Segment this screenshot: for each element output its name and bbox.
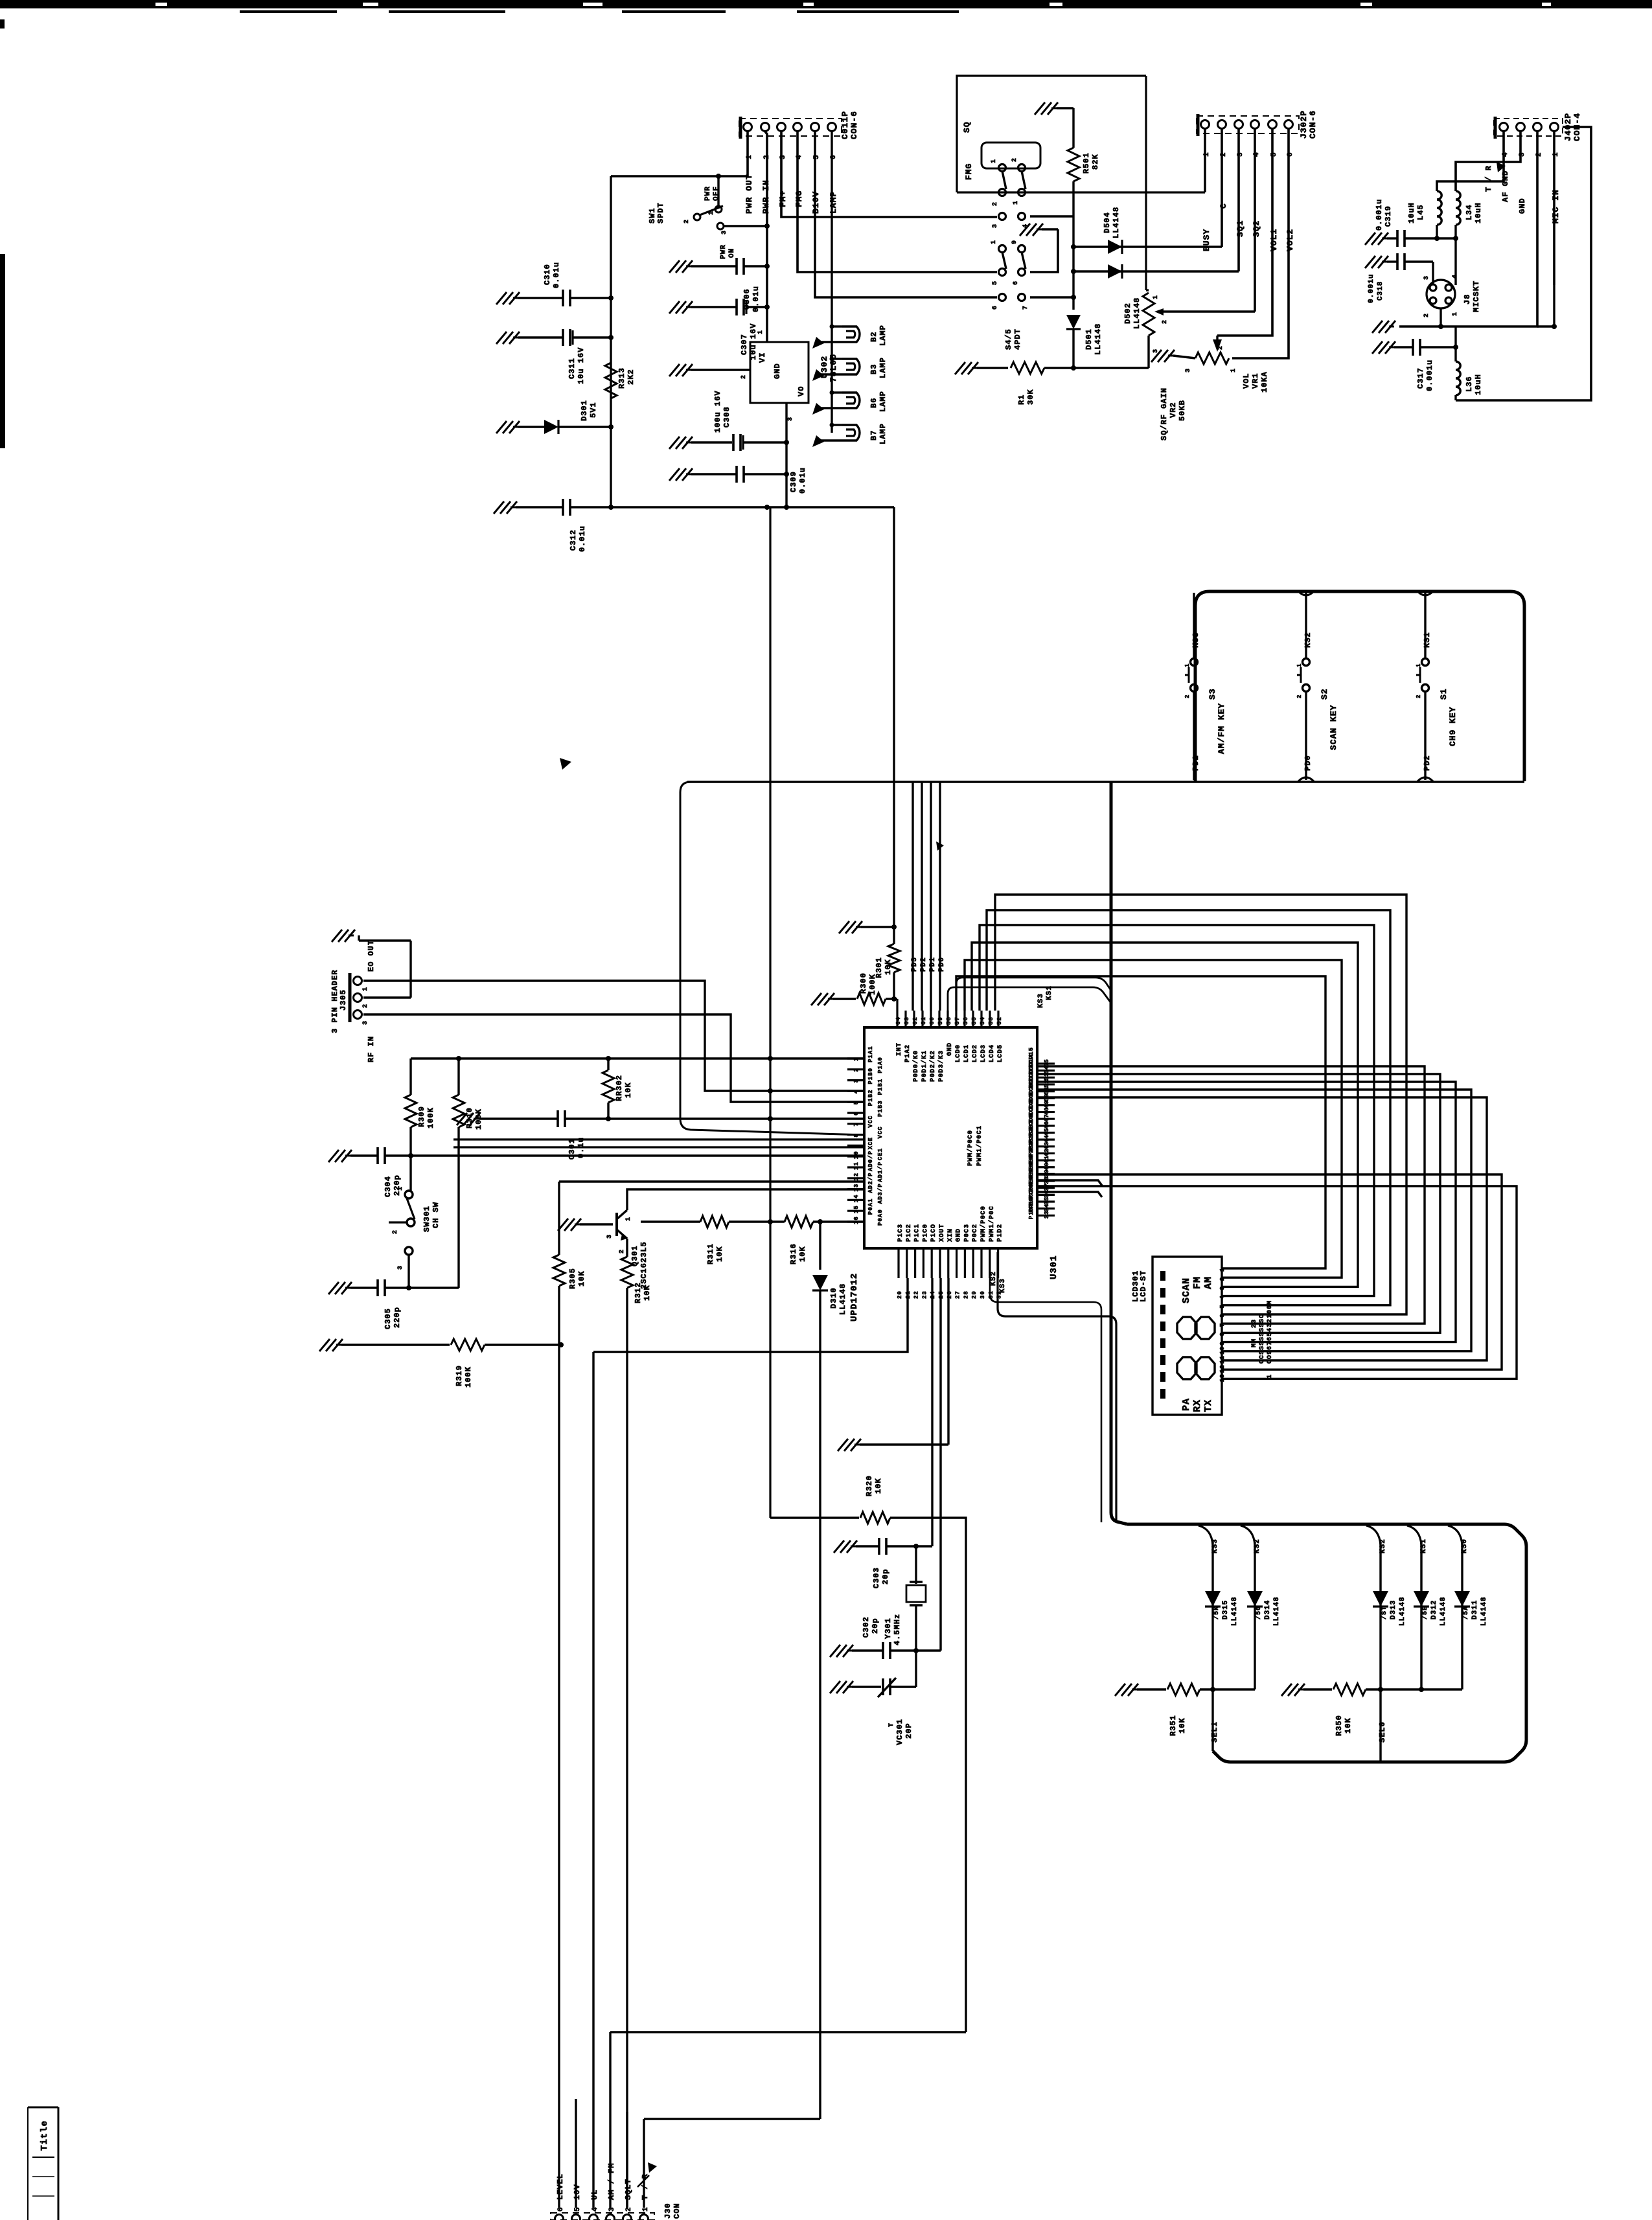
resistor R319 100K bbox=[319, 1339, 343, 1351]
bus wire LCD pin5 bbox=[987, 910, 1390, 1305]
diode D312 LL4148 KS1 bbox=[1407, 1526, 1421, 1545]
svg-text:/5G: /5G bbox=[1255, 1606, 1263, 1619]
bus wire LCD pin10 bbox=[1037, 1090, 1471, 1351]
wire UL bbox=[592, 1352, 594, 2208]
svg-text:R1: R1 bbox=[1017, 395, 1026, 405]
svg-text:C310: C310 bbox=[543, 264, 552, 285]
wire AM/FM bbox=[609, 2032, 611, 2208]
svg-text:C309: C309 bbox=[789, 471, 798, 492]
svg-text:2: 2 bbox=[1423, 313, 1430, 317]
svg-text:6: 6 bbox=[1219, 1314, 1226, 1318]
svg-text:60: 60 bbox=[929, 1016, 935, 1025]
svg-text:C305: C305 bbox=[384, 1308, 393, 1329]
svg-text:220p: 220p bbox=[393, 1174, 402, 1196]
capacitor C306 0.01u bbox=[669, 260, 693, 273]
svg-text:KS2: KS2 bbox=[1303, 632, 1313, 648]
potentiometer VR1 VOL 10KA bbox=[1151, 350, 1175, 362]
svg-text:10K: 10K bbox=[1178, 1717, 1187, 1734]
svg-text:TX: TX bbox=[1203, 1399, 1214, 1412]
svg-text:1: 1 bbox=[708, 211, 715, 215]
switch SW301 CH SW bbox=[409, 1156, 411, 1191]
svg-text:2: 2 bbox=[392, 1230, 399, 1234]
svg-text:0.01u: 0.01u bbox=[798, 467, 807, 494]
svg-text:11: 11 bbox=[853, 1161, 860, 1170]
wire PWR OUT left rail bbox=[610, 176, 612, 507]
svg-text:KS1: KS1 bbox=[1420, 1539, 1428, 1553]
svg-text:P0D0/K0: P0D0/K0 bbox=[912, 1050, 920, 1082]
svg-text:2: 2 bbox=[1162, 319, 1169, 324]
svg-text:0.01u: 0.01u bbox=[578, 525, 587, 552]
svg-text:22: 22 bbox=[913, 1290, 920, 1299]
svg-text:LL4148: LL4148 bbox=[1399, 1596, 1406, 1626]
diode box outline bbox=[1127, 1524, 1526, 1762]
S4 inner rounded box bbox=[981, 143, 1040, 168]
svg-text:3: 3 bbox=[397, 1265, 404, 1270]
wire SQ2 bbox=[1254, 129, 1256, 312]
svg-text:PWR: PWR bbox=[720, 244, 728, 259]
svg-text:KS3: KS3 bbox=[1211, 1539, 1219, 1553]
svg-text:VOL2: VOL2 bbox=[1285, 229, 1295, 251]
svg-text:PD1: PD1 bbox=[929, 957, 937, 972]
svg-text:MIC IN: MIC IN bbox=[1551, 189, 1561, 223]
svg-text:2: 2 bbox=[740, 374, 748, 379]
svg-text:J302P: J302P bbox=[1299, 110, 1309, 139]
capacitor C302 20p bbox=[830, 1645, 853, 1657]
resistor R501 82K bbox=[1035, 102, 1058, 115]
svg-text:VC301: VC301 bbox=[895, 1719, 904, 1745]
svg-text:/5K: /5K bbox=[1213, 1606, 1221, 1619]
svg-text:5: 5 bbox=[574, 2206, 582, 2212]
svg-text:3: 3 bbox=[721, 230, 728, 235]
svg-text:10: 10 bbox=[1219, 1346, 1226, 1355]
svg-text:16: 16 bbox=[853, 1216, 860, 1224]
svg-text:10KA: 10KA bbox=[1260, 371, 1269, 393]
capacitor C309 0.01u bbox=[669, 468, 693, 481]
svg-text:PD1: PD1 bbox=[1191, 755, 1200, 771]
svg-text:KS0: KS0 bbox=[1461, 1539, 1469, 1553]
svg-text:UL: UL bbox=[590, 2190, 599, 2200]
svg-text:23: 23 bbox=[1251, 1319, 1258, 1328]
svg-text:P1D2: P1D2 bbox=[997, 1224, 1004, 1242]
svg-text:AM/FM KEY: AM/FM KEY bbox=[1217, 703, 1226, 754]
switch SW1 SPDT bbox=[715, 206, 722, 212]
svg-text:KS1: KS1 bbox=[1423, 632, 1432, 648]
svg-text:100K: 100K bbox=[426, 1107, 435, 1128]
svg-text:R312: R312 bbox=[634, 1282, 643, 1303]
bus wire LCD pin12 bbox=[1037, 1174, 1502, 1369]
svg-text:LAMP: LAMP bbox=[878, 391, 888, 412]
svg-text:/ST: /ST bbox=[1381, 1606, 1388, 1619]
regulator U302 78L05 bbox=[750, 342, 809, 403]
svg-text:KS2: KS2 bbox=[1379, 1539, 1387, 1553]
svg-text:R309: R309 bbox=[417, 1106, 426, 1127]
svg-text:10uH: 10uH bbox=[1474, 202, 1483, 223]
LCD301 LCD-ST display bbox=[1153, 1257, 1222, 1415]
svg-text:AD3/P: AD3/P bbox=[877, 1183, 884, 1204]
svg-text:LAMP: LAMP bbox=[878, 357, 888, 378]
wire EO OUT bbox=[363, 981, 864, 1091]
connector C011P CON-6 bbox=[739, 119, 842, 136]
svg-text:AF GND: AF GND bbox=[1501, 170, 1510, 202]
svg-text:3: 3 bbox=[853, 1079, 860, 1082]
svg-text:54: 54 bbox=[980, 1016, 986, 1025]
svg-text:LL4148: LL4148 bbox=[1094, 323, 1103, 355]
svg-text:SCAN KEY: SCAN KEY bbox=[1329, 705, 1338, 750]
svg-text:L34: L34 bbox=[1465, 204, 1474, 220]
bus wire LCD pin1 bbox=[956, 976, 1325, 1268]
svg-text:SEL0: SEL0 bbox=[1378, 1721, 1387, 1743]
svg-text:T / R: T / R bbox=[1484, 165, 1493, 192]
svg-text:LCD3: LCD3 bbox=[980, 1044, 987, 1062]
svg-text:PD0: PD0 bbox=[1303, 755, 1313, 771]
svg-text:R501: R501 bbox=[1082, 152, 1091, 174]
svg-text:1: 1 bbox=[1267, 1374, 1274, 1379]
bus wire LCD pin3 bbox=[972, 943, 1358, 1287]
svg-text:1: 1 bbox=[1153, 295, 1160, 299]
5V rail vertical bbox=[769, 507, 771, 1518]
svg-text:RF IN: RF IN bbox=[367, 1036, 376, 1062]
PD bus wires bbox=[912, 782, 913, 1011]
svg-text:2: 2 bbox=[1296, 694, 1303, 698]
svg-text:P1CO: P1CO bbox=[930, 1224, 937, 1242]
svg-text:D315: D315 bbox=[1222, 1600, 1230, 1619]
svg-text:VR1: VR1 bbox=[1251, 372, 1260, 389]
svg-text:59: 59 bbox=[937, 1016, 944, 1025]
svg-text:4PDT: 4PDT bbox=[1013, 328, 1022, 350]
svg-text:KS2: KS2 bbox=[1254, 1539, 1261, 1553]
svg-text:8: 8 bbox=[853, 1133, 860, 1137]
transistor Q301 2SC1623L5 bbox=[558, 1219, 581, 1231]
svg-text:P1C2: P1C2 bbox=[906, 1224, 913, 1242]
wire SEL1 bbox=[1211, 1689, 1213, 1751]
svg-text:3 PIN HEADER: 3 PIN HEADER bbox=[330, 970, 339, 1033]
connector J303 CON-6 bottom bbox=[551, 2213, 654, 2220]
svg-text:R350: R350 bbox=[1335, 1715, 1344, 1736]
diode D502 LL4148 bbox=[1071, 244, 1076, 249]
svg-text:LL4148: LL4148 bbox=[1132, 297, 1141, 329]
lamp B3 bbox=[830, 357, 834, 361]
svg-text:1: 1 bbox=[1013, 200, 1020, 205]
trimmer VC301 20P bbox=[830, 1681, 853, 1693]
bus wire left branch down bbox=[680, 782, 864, 1135]
svg-text:3: 3 bbox=[1423, 275, 1430, 280]
svg-text:P1C0: P1C0 bbox=[922, 1224, 929, 1242]
svg-text:KS1: KS1 bbox=[1046, 985, 1053, 1000]
svg-text:PD0: PD0 bbox=[938, 957, 946, 972]
svg-text:1: 1 bbox=[397, 1186, 404, 1191]
svg-text:CH9 KEY: CH9 KEY bbox=[1448, 706, 1458, 746]
svg-text:4: 4 bbox=[1219, 1295, 1226, 1299]
wire FMG to S4 contact bbox=[797, 132, 997, 272]
svg-text:50KB: 50KB bbox=[1178, 400, 1187, 421]
capacitor C301 0.1u bbox=[457, 1113, 480, 1125]
wire C bbox=[1221, 129, 1223, 247]
svg-text:10K: 10K bbox=[577, 1270, 586, 1287]
svg-text:13: 13 bbox=[1219, 1374, 1226, 1382]
bus wire LCD pin2 bbox=[965, 960, 1342, 1277]
capacitor C312 0.01u bbox=[494, 501, 517, 514]
svg-text:2: 2 bbox=[683, 219, 691, 223]
svg-text:10uH: 10uH bbox=[1407, 202, 1416, 223]
svg-text:LCD5: LCD5 bbox=[997, 1044, 1004, 1062]
wire pin3 to L34 bbox=[1456, 132, 1520, 191]
svg-text:23: 23 bbox=[921, 1290, 928, 1299]
diode D313 LL4148 KS2 bbox=[1366, 1526, 1381, 1545]
svg-text:27: 27 bbox=[955, 1290, 961, 1299]
resistor R320 10K bbox=[860, 1512, 890, 1524]
svg-text:30: 30 bbox=[980, 1290, 986, 1299]
wire SQLT bottom bbox=[626, 2112, 628, 2208]
svg-text:LL4148: LL4148 bbox=[1440, 1596, 1447, 1626]
svg-text:2: 2 bbox=[1219, 1277, 1226, 1281]
extra right pin wires bbox=[1037, 1180, 1102, 1185]
svg-text:62: 62 bbox=[912, 1016, 919, 1025]
svg-text:10K: 10K bbox=[643, 1285, 652, 1301]
capacitor C311 10u 16V bbox=[496, 332, 520, 344]
bus wire LCD pin8 bbox=[1037, 1074, 1440, 1333]
switch S2 SCAN KEY bbox=[1305, 593, 1307, 658]
svg-text:PD2: PD2 bbox=[1423, 755, 1432, 771]
svg-text:C302: C302 bbox=[862, 1616, 871, 1638]
wire GND net bbox=[1399, 132, 1537, 326]
svg-text:33: 33 bbox=[1044, 1210, 1050, 1219]
svg-text:LAMP: LAMP bbox=[829, 191, 838, 214]
svg-text:KS2: KS2 bbox=[990, 1271, 998, 1286]
S4 contacts row1 bbox=[999, 165, 1006, 172]
svg-text:12: 12 bbox=[1219, 1364, 1226, 1373]
svg-text:1: 1 bbox=[642, 2206, 650, 2212]
KS3 KS1 stub wires bbox=[948, 987, 1110, 1011]
svg-text:1: 1 bbox=[991, 240, 998, 244]
svg-text:220p: 220p bbox=[393, 1307, 402, 1328]
svg-text:P1C1: P1C1 bbox=[914, 1224, 921, 1242]
svg-text:LAMP: LAMP bbox=[878, 325, 888, 346]
lamp B2 bbox=[830, 325, 834, 329]
svg-text:KS3: KS3 bbox=[1037, 993, 1045, 1008]
resistor R300 100K bbox=[811, 993, 834, 1005]
svg-text:U301: U301 bbox=[1049, 1255, 1059, 1279]
wire R305 net to MCU bbox=[559, 1180, 864, 1182]
wire KS2 bbox=[990, 1252, 1101, 1522]
svg-text:J305: J305 bbox=[339, 989, 348, 1011]
svg-text:53: 53 bbox=[988, 1016, 994, 1025]
svg-text:SPDT: SPDT bbox=[656, 202, 665, 223]
svg-text:58: 58 bbox=[946, 1016, 952, 1025]
svg-text:D502: D502 bbox=[1123, 303, 1132, 324]
svg-text:64: 64 bbox=[895, 1016, 902, 1025]
wire pin1 row to resistors bbox=[411, 1057, 864, 1059]
inductor L34 10uH bbox=[1456, 191, 1460, 225]
bus wire LCD pin4 bbox=[980, 925, 1374, 1296]
svg-text:OO96765432100M: OO96765432100M bbox=[1267, 1300, 1274, 1364]
svg-text:T / R: T / R bbox=[641, 2173, 650, 2200]
svg-text:D314: D314 bbox=[1264, 1600, 1272, 1619]
small arrow mark bbox=[560, 758, 571, 770]
svg-text:5V1: 5V1 bbox=[589, 402, 598, 418]
svg-text:RX: RX bbox=[1192, 1399, 1203, 1412]
svg-text:BUSY: BUSY bbox=[1202, 229, 1211, 251]
svg-text:10u 16V: 10u 16V bbox=[577, 347, 586, 384]
wire SEL0 bbox=[1379, 1689, 1381, 1762]
svg-text:15: 15 bbox=[853, 1205, 860, 1213]
svg-text:6: 6 bbox=[557, 2206, 565, 2212]
svg-text:10K: 10K bbox=[624, 1082, 633, 1098]
capacitor C304 220p bbox=[328, 1150, 352, 1162]
wire KS3 bbox=[998, 1252, 1116, 1522]
svg-text:VOL1: VOL1 bbox=[1269, 229, 1279, 251]
bus wire LCD pin6 bbox=[995, 895, 1406, 1314]
svg-text:PWM1/P0C1: PWM1/P0C1 bbox=[976, 1125, 983, 1166]
svg-text:SW1: SW1 bbox=[648, 207, 657, 223]
svg-text:12: 12 bbox=[853, 1173, 860, 1181]
svg-text:MICSKT: MICSKT bbox=[1472, 280, 1481, 312]
svg-text:LEVEL: LEVEL bbox=[556, 2173, 565, 2200]
connector J305 3 PIN HEADER bbox=[349, 973, 352, 1022]
ground row for MCU GND pin bbox=[838, 1439, 861, 1451]
svg-text:R320: R320 bbox=[865, 1475, 874, 1496]
svg-text:1: 1 bbox=[1416, 663, 1422, 667]
bus wire center branch down to diode box bbox=[1111, 782, 1127, 1524]
svg-text:D312: D312 bbox=[1430, 1600, 1438, 1619]
svg-text:P1B0: P1B0 bbox=[867, 1068, 874, 1084]
wire T/R horizontal 3271 bbox=[644, 2118, 820, 2120]
svg-text:T: T bbox=[888, 1722, 895, 1727]
svg-text:7: 7 bbox=[853, 1122, 860, 1126]
svg-text:PD3: PD3 bbox=[911, 957, 919, 972]
wire SQLT horizontal 3137 bbox=[610, 2031, 966, 2033]
svg-text:P1A0: P1A0 bbox=[877, 1057, 884, 1073]
svg-text:D310: D310 bbox=[829, 1287, 838, 1309]
svg-text:6: 6 bbox=[853, 1112, 860, 1116]
svg-text:FM: FM bbox=[1192, 1276, 1203, 1289]
svg-text:1: 1 bbox=[1184, 663, 1191, 667]
S4 contacts row3 bbox=[999, 246, 1006, 253]
wire 10V bbox=[575, 2099, 577, 2208]
wire VOL1 bbox=[1217, 129, 1272, 336]
svg-text:J30: J30 bbox=[663, 2203, 672, 2219]
svg-text:AD2/P: AD2/P bbox=[867, 1173, 874, 1193]
svg-text:CH SW: CH SW bbox=[431, 1202, 441, 1228]
svg-text:P1A2: P1A2 bbox=[904, 1044, 912, 1062]
svg-text:20p: 20p bbox=[881, 1568, 890, 1585]
svg-text:Title: Title bbox=[40, 2120, 50, 2151]
svg-text:EO OUT: EO OUT bbox=[367, 940, 376, 972]
svg-text:P1B2: P1B2 bbox=[867, 1090, 874, 1106]
svg-text:KS3: KS3 bbox=[999, 1278, 1007, 1293]
resistor R312 10K bbox=[621, 1257, 633, 1288]
svg-text:CCSSSSSSSSC: CCSSSSSSSSC bbox=[1259, 1314, 1266, 1364]
svg-text:/5A: /5A bbox=[1462, 1606, 1470, 1619]
svg-text:P0D3/K3: P0D3/K3 bbox=[937, 1050, 945, 1082]
svg-text:C304: C304 bbox=[384, 1176, 393, 1197]
svg-text:P0C3: P0C3 bbox=[963, 1224, 970, 1242]
small mark bbox=[936, 841, 944, 851]
U301 top pins bbox=[896, 1011, 898, 1027]
svg-text:LCD2: LCD2 bbox=[972, 1044, 979, 1062]
svg-text:B6: B6 bbox=[869, 398, 878, 408]
diode D315 LL4148 KS3 bbox=[1199, 1526, 1213, 1545]
svg-text:R300: R300 bbox=[859, 972, 868, 994]
svg-text:10uH: 10uH bbox=[1474, 374, 1483, 395]
svg-text:2: 2 bbox=[619, 1249, 626, 1253]
svg-text:D301: D301 bbox=[580, 400, 589, 421]
svg-text:XOUT: XOUT bbox=[939, 1224, 946, 1242]
svg-text:CON-6: CON-6 bbox=[849, 111, 859, 139]
svg-text:20p: 20p bbox=[871, 1618, 880, 1634]
svg-text:1: 1 bbox=[625, 1217, 632, 1221]
title block bottom left bbox=[58, 2107, 60, 2220]
svg-text:VOL: VOL bbox=[1242, 372, 1251, 389]
wire pin4 to L45 bbox=[1437, 132, 1504, 191]
resistor R305 10K bbox=[558, 1182, 560, 1255]
svg-text:PWR: PWR bbox=[704, 186, 712, 201]
svg-text:SQ1: SQ1 bbox=[1235, 220, 1245, 237]
svg-text:C311: C311 bbox=[568, 358, 577, 379]
svg-text:PWR OUT: PWR OUT bbox=[744, 174, 754, 214]
zener diode D301 5V1 bbox=[496, 421, 520, 433]
potentiometer VR2 50KB SQ/RF GAIN bbox=[1146, 289, 1149, 291]
wire VOL2 bbox=[1232, 129, 1289, 358]
wire UL row bbox=[593, 1278, 908, 1352]
svg-text:LCD1: LCD1 bbox=[963, 1044, 970, 1062]
key box outline bbox=[1195, 591, 1524, 781]
U301 right pins bbox=[1037, 1062, 1055, 1064]
svg-text:3: 3 bbox=[1185, 368, 1192, 372]
resistor R310 100K bbox=[457, 1059, 459, 1095]
svg-text:VO: VO bbox=[797, 386, 806, 396]
wire U302 VO pin3 rail bbox=[785, 403, 787, 507]
svg-text:P0D1/K1: P0D1/K1 bbox=[921, 1050, 928, 1082]
svg-text:3: 3 bbox=[1219, 1286, 1226, 1290]
R320 row bbox=[770, 1516, 859, 1518]
svg-text:SQ2: SQ2 bbox=[1252, 220, 1261, 237]
svg-text:FMG: FMG bbox=[964, 163, 974, 180]
svg-text:29: 29 bbox=[971, 1290, 978, 1299]
svg-text:LL4148: LL4148 bbox=[1231, 1596, 1239, 1626]
svg-text:GND: GND bbox=[956, 1228, 963, 1242]
svg-text:P0C2: P0C2 bbox=[972, 1224, 979, 1242]
U301 left pins bbox=[847, 1057, 864, 1059]
svg-text:0.01u: 0.01u bbox=[751, 286, 761, 312]
scan artifact left edge bar bbox=[0, 19, 5, 29]
svg-text:R305: R305 bbox=[568, 1268, 577, 1289]
svg-text:J8: J8 bbox=[1463, 294, 1472, 304]
svg-text:GND: GND bbox=[1518, 198, 1527, 214]
svg-text:6: 6 bbox=[1013, 280, 1020, 285]
capacitor C308 100u 16V bbox=[669, 437, 693, 449]
connector J402P CON-4 bbox=[1494, 119, 1563, 136]
svg-text:14: 14 bbox=[853, 1195, 860, 1203]
svg-text:LL4148: LL4148 bbox=[838, 1283, 847, 1315]
wire pin1 MIC IN bbox=[1553, 132, 1555, 285]
svg-text:S2: S2 bbox=[1320, 688, 1329, 700]
svg-text:PD2: PD2 bbox=[920, 957, 928, 972]
svg-text:C303: C303 bbox=[872, 1567, 881, 1588]
svg-text:R319: R319 bbox=[455, 1365, 464, 1386]
svg-text:10K: 10K bbox=[798, 1246, 807, 1262]
svg-text:1: 1 bbox=[1219, 1268, 1226, 1272]
svg-text:2: 2 bbox=[853, 1068, 860, 1071]
svg-text:10V: 10V bbox=[573, 2184, 582, 2200]
svg-text:2: 2 bbox=[1217, 345, 1224, 350]
scan artifact top bar bbox=[0, 0, 1652, 8]
svg-text:OFF: OFF bbox=[713, 186, 720, 201]
svg-text:63: 63 bbox=[904, 1016, 910, 1025]
svg-text:0.01u: 0.01u bbox=[552, 262, 561, 288]
svg-text:XCE: XCE bbox=[867, 1137, 874, 1149]
svg-text:3: 3 bbox=[362, 1020, 369, 1025]
svg-text:CON: CON bbox=[672, 2203, 682, 2219]
